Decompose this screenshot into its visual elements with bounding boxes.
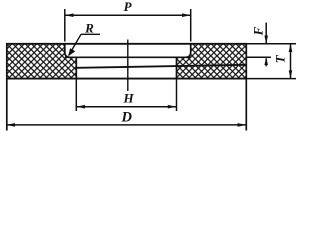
recess left wall with corner fillet xyxy=(65,44,70,58)
T arrow up xyxy=(289,44,293,52)
H arrow right xyxy=(168,105,177,109)
F dimension line upper xyxy=(265,23,267,43)
top surface extension line (for F and T) xyxy=(247,43,296,45)
svg-text:D: D xyxy=(120,110,132,126)
P extension line left xyxy=(64,9,66,42)
R leader shoulder xyxy=(81,33,100,35)
part outline: bottom surface line xyxy=(6,78,247,80)
bore right edge xyxy=(176,57,178,78)
recess right wall with corner fillet xyxy=(186,44,191,58)
F arrow up xyxy=(264,57,268,65)
svg-text:F: F xyxy=(251,26,266,36)
P arrow right xyxy=(182,13,191,17)
left section hatch (L-shape with recess fillet) xyxy=(7,44,77,79)
D dimension line xyxy=(7,124,246,126)
R leader line xyxy=(70,34,82,54)
H dimension line xyxy=(77,106,176,108)
vertical centerline xyxy=(127,40,129,92)
svg-text:H: H xyxy=(122,91,134,106)
recess depth extension line (for F) xyxy=(247,56,271,58)
svg-text:P: P xyxy=(124,0,133,14)
part left edge plus D extension line xyxy=(6,43,8,131)
P extension line right xyxy=(190,9,192,42)
H extension line left xyxy=(75,80,77,112)
F dimension line lower xyxy=(265,58,267,66)
D arrow right xyxy=(238,123,247,127)
bottom surface extension line (for T) xyxy=(247,78,296,80)
right section hatch (mirror L-shape) xyxy=(177,44,247,79)
T arrow down xyxy=(289,70,293,78)
bore inner line xyxy=(76,65,246,68)
P dimension line xyxy=(66,14,191,16)
part right edge plus D extension line xyxy=(245,43,247,131)
bore left edge xyxy=(75,57,77,78)
D arrow left xyxy=(6,123,15,127)
part outline: top surface line xyxy=(6,43,247,45)
recess bottom line xyxy=(65,56,191,58)
F arrow down xyxy=(264,36,268,44)
H extension line right xyxy=(176,80,178,112)
P arrow left xyxy=(65,13,74,17)
H arrow left xyxy=(76,105,85,109)
R leader arrowhead xyxy=(68,48,75,56)
svg-text:R: R xyxy=(84,21,94,36)
svg-text:T: T xyxy=(272,54,287,63)
T dimension line xyxy=(290,45,292,79)
